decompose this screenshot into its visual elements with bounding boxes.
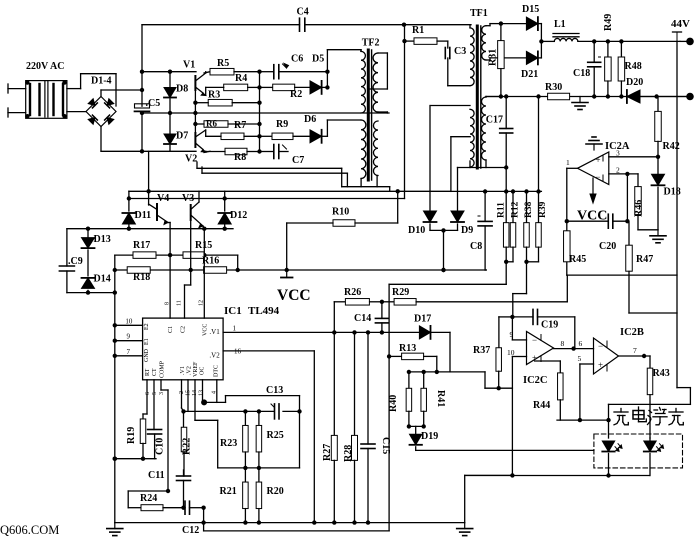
resistor R39 bbox=[536, 97, 548, 262]
wire bbox=[127, 25, 414, 201]
svg-text:D15: D15 bbox=[522, 4, 539, 15]
C7 label bbox=[292, 155, 304, 166]
wire R29 line bbox=[416, 275, 567, 302]
svg-text:9: 9 bbox=[510, 330, 514, 339]
wire pin14 bbox=[195, 380, 218, 468]
svg-text:D9: D9 bbox=[461, 225, 473, 236]
wire pin3 line bbox=[609, 149, 660, 160]
resistor R15 bbox=[183, 240, 212, 258]
wire bbox=[538, 24, 544, 58]
wire IC2B out bbox=[619, 346, 651, 358]
svg-text:R46: R46 bbox=[634, 200, 645, 217]
svg-text:D12: D12 bbox=[230, 210, 247, 221]
wire pin16 bbox=[223, 351, 314, 522]
svg-text:+: + bbox=[598, 360, 603, 370]
wire bbox=[113, 457, 156, 461]
svg-text:7: 7 bbox=[633, 346, 637, 355]
wire pin3 COMP bbox=[161, 380, 170, 493]
svg-text:C13: C13 bbox=[266, 385, 283, 396]
wire bbox=[279, 151, 288, 153]
svg-text:C14: C14 bbox=[354, 313, 371, 324]
LED float bbox=[644, 438, 664, 476]
op-amp IC1 box TL494 bbox=[143, 318, 224, 380]
svg-text:5: 5 bbox=[152, 392, 158, 395]
diode D5 bbox=[295, 54, 325, 94]
svg-text:C8: C8 bbox=[470, 241, 482, 252]
resistor R22 bbox=[181, 411, 192, 476]
wire left bus bbox=[113, 255, 117, 522]
resistor R11 bbox=[497, 192, 509, 262]
svg-text:TF2: TF2 bbox=[362, 38, 380, 49]
svg-text:220V AC: 220V AC bbox=[26, 61, 64, 72]
wire bbox=[204, 508, 390, 531]
resistor R47 bbox=[626, 222, 653, 313]
svg-text:C12: C12 bbox=[182, 525, 199, 536]
ground flipped bbox=[586, 137, 602, 150]
transistor V3 bbox=[191, 191, 205, 229]
svg-text:D21: D21 bbox=[521, 69, 538, 80]
resistor R41 bbox=[421, 372, 446, 427]
capacitor C5 bbox=[135, 98, 161, 111]
svg-text:GND: GND bbox=[144, 348, 150, 362]
svg-text:IC1: IC1 bbox=[224, 305, 242, 317]
TL494 pin numbers bbox=[125, 300, 241, 396]
resistor R48 bbox=[618, 41, 642, 96]
capacitor C19 bbox=[512, 309, 574, 348]
resistor R38 bbox=[524, 192, 534, 262]
ground bbox=[572, 97, 588, 110]
wire bbox=[486, 96, 501, 99]
svg-text:R45: R45 bbox=[569, 254, 586, 265]
wire mid line bbox=[67, 227, 233, 231]
svg-text:.C9: .C9 bbox=[68, 256, 83, 267]
svg-text:D18: D18 bbox=[664, 187, 681, 198]
wire bbox=[625, 174, 629, 224]
D1-4 label bbox=[91, 76, 112, 87]
resistor R17 bbox=[133, 240, 156, 258]
wire bbox=[431, 105, 470, 107]
transistor V2 bbox=[195, 130, 205, 152]
svg-text:R18: R18 bbox=[133, 272, 150, 283]
resistor R18 bbox=[127, 267, 150, 283]
wire pin15 bbox=[187, 380, 189, 412]
diode D9 bbox=[451, 168, 473, 237]
svg-text:R2: R2 bbox=[290, 89, 302, 100]
wire bbox=[325, 50, 361, 90]
svg-text:R22: R22 bbox=[182, 438, 193, 455]
wire bbox=[437, 41, 448, 48]
wire bbox=[504, 260, 513, 285]
wire bbox=[206, 85, 273, 89]
wire emitter rail 2 bbox=[202, 167, 390, 191]
wire bbox=[407, 424, 426, 428]
svg-text:D8: D8 bbox=[176, 84, 188, 95]
wire bbox=[185, 220, 191, 318]
resistor R45 bbox=[564, 221, 587, 275]
svg-text:R10: R10 bbox=[332, 207, 349, 218]
diode D10 bbox=[408, 106, 437, 237]
diode D18 bbox=[652, 157, 681, 230]
svg-text:C10: C10 bbox=[155, 438, 166, 455]
svg-text:R29: R29 bbox=[392, 287, 409, 298]
resistor R9 bbox=[272, 119, 293, 140]
svg-text:R39: R39 bbox=[538, 201, 548, 218]
svg-text:Q606.COM: Q606.COM bbox=[0, 523, 59, 537]
svg-text:C2: C2 bbox=[181, 326, 187, 333]
svg-text:RT: RT bbox=[145, 368, 151, 376]
wire pin2 line bbox=[609, 166, 638, 177]
diode D17 bbox=[414, 314, 431, 339]
svg-text:C6: C6 bbox=[291, 54, 303, 65]
wire emitter rail 1 bbox=[197, 162, 342, 187]
wire bbox=[448, 58, 470, 86]
220V AC label bbox=[26, 61, 64, 72]
svg-text:C11: C11 bbox=[148, 470, 165, 481]
wire bbox=[287, 191, 398, 270]
op-amp IC2A bbox=[578, 152, 609, 185]
wire bbox=[67, 111, 86, 113]
wire bbox=[370, 300, 395, 304]
capacitor C11 bbox=[148, 470, 191, 508]
capacitor C8 bbox=[470, 192, 492, 271]
resistor R3 bbox=[208, 90, 232, 106]
wire bbox=[259, 72, 261, 103]
wire bbox=[101, 88, 144, 97]
svg-text:OC: OC bbox=[200, 367, 206, 375]
ground bbox=[107, 523, 123, 536]
ground bbox=[457, 523, 473, 536]
resistor R19 bbox=[126, 380, 147, 459]
wire mid divider line bbox=[218, 466, 300, 470]
svg-text:.V2: .V2 bbox=[187, 366, 193, 375]
svg-text:10: 10 bbox=[125, 317, 132, 325]
wire bbox=[486, 58, 526, 60]
transformer TF1 secondary lower bbox=[482, 97, 487, 160]
wire bbox=[557, 404, 611, 438]
wire aux line bbox=[451, 189, 542, 193]
V1 label bbox=[183, 60, 195, 71]
Q606.COM watermark bbox=[0, 523, 59, 537]
capacitor C10 bbox=[148, 380, 166, 459]
pin 10 label bbox=[507, 348, 515, 357]
wire top bus bbox=[142, 23, 471, 27]
svg-text:R19: R19 bbox=[126, 427, 137, 444]
diode D20 bbox=[626, 77, 643, 103]
svg-text:D6: D6 bbox=[304, 114, 316, 125]
wire bbox=[451, 137, 486, 192]
wire top line V3V4 bbox=[129, 151, 451, 193]
transformer TF2 secondary lower bbox=[373, 121, 378, 176]
wire bbox=[195, 101, 261, 105]
diode D11 bbox=[122, 191, 151, 229]
svg-text:C19: C19 bbox=[541, 320, 558, 331]
wire IC2C out bbox=[554, 339, 594, 351]
V3 label bbox=[182, 193, 194, 204]
wire bbox=[206, 149, 274, 153]
svg-text:C17: C17 bbox=[486, 115, 503, 126]
IC1 TL494 label bbox=[224, 305, 280, 317]
wire bbox=[431, 332, 451, 372]
resistor R1 bbox=[412, 25, 437, 44]
wire bbox=[299, 411, 301, 468]
wire bottom bus bbox=[115, 520, 465, 524]
diode D6 bbox=[293, 114, 322, 143]
wire bottom rail bbox=[101, 149, 210, 153]
transformer TF2 core bbox=[368, 50, 371, 180]
wire mid rail bbox=[140, 111, 389, 115]
svg-text:1: 1 bbox=[233, 325, 237, 333]
wire bbox=[578, 354, 594, 422]
svg-text:E1: E1 bbox=[144, 338, 150, 345]
TF1 label bbox=[470, 8, 488, 19]
wire bbox=[115, 253, 238, 270]
wire bbox=[163, 506, 186, 510]
svg-text:D19: D19 bbox=[421, 431, 438, 442]
VCC label right bbox=[577, 209, 607, 224]
wire bbox=[465, 357, 515, 523]
diode D15 bbox=[522, 4, 539, 30]
diode D19 bbox=[410, 426, 439, 450]
wire pin7 bbox=[115, 355, 143, 357]
svg-text:R47: R47 bbox=[636, 254, 653, 265]
svg-text:R40: R40 bbox=[388, 395, 399, 412]
wire bbox=[67, 74, 116, 106]
44V label bbox=[671, 18, 690, 41]
svg-text:R12: R12 bbox=[511, 201, 521, 218]
svg-text:44V: 44V bbox=[671, 18, 690, 30]
wire pin13 OC bbox=[201, 380, 207, 406]
svg-text:R5: R5 bbox=[217, 58, 229, 69]
transformer TF2 primary lower bbox=[361, 120, 366, 179]
svg-text:R26: R26 bbox=[344, 287, 361, 298]
wire row V1 collector bbox=[142, 70, 210, 74]
svg-text:.C5: .C5 bbox=[146, 98, 161, 109]
wire pin1 line bbox=[223, 330, 419, 334]
wire bbox=[416, 449, 594, 451]
wire bbox=[279, 70, 330, 74]
transformer T input 220V bbox=[25, 80, 67, 118]
svg-text:D13: D13 bbox=[94, 234, 111, 245]
wire bbox=[567, 41, 677, 387]
diode D14 bbox=[82, 274, 111, 293]
resistor R5 bbox=[210, 58, 234, 75]
svg-text:R8: R8 bbox=[234, 152, 246, 163]
transformer TF1 primary lower bbox=[470, 109, 474, 167]
LED charging bbox=[602, 441, 622, 476]
transformer TF1 secondary upper bbox=[482, 26, 486, 60]
TL494 pin labels bbox=[144, 323, 220, 378]
resistor R20 bbox=[256, 468, 284, 522]
svg-text:11: 11 bbox=[177, 300, 183, 306]
charge mode label 充电 浮充 bbox=[614, 407, 683, 425]
svg-text:VCC: VCC bbox=[203, 324, 209, 336]
resistor R28 bbox=[343, 332, 358, 522]
wire bbox=[513, 260, 539, 317]
svg-text:R1: R1 bbox=[412, 25, 424, 36]
capacitor C4 bbox=[297, 7, 309, 32]
svg-text:1: 1 bbox=[566, 158, 570, 167]
svg-text:R3: R3 bbox=[208, 90, 220, 101]
svg-text:R43: R43 bbox=[653, 368, 670, 379]
svg-text:R21: R21 bbox=[220, 486, 237, 497]
terminal 44V- bbox=[640, 93, 694, 101]
transistor V4 bbox=[149, 191, 168, 224]
resistor R29 bbox=[392, 287, 416, 305]
inductor L1 bbox=[553, 19, 579, 41]
diode D12 bbox=[218, 191, 247, 229]
capacitor C6 bbox=[274, 64, 289, 79]
svg-text:R15: R15 bbox=[195, 240, 212, 251]
capacitor C3 bbox=[445, 46, 466, 59]
wire bbox=[322, 120, 361, 136]
capacitor C20 bbox=[567, 214, 628, 252]
svg-text:VREF: VREF bbox=[193, 361, 199, 377]
wire bbox=[234, 70, 274, 74]
svg-text:R41: R41 bbox=[435, 390, 446, 407]
svg-text:R9: R9 bbox=[276, 119, 288, 130]
wire VCC rail bbox=[115, 268, 486, 273]
resistor R12 bbox=[510, 192, 520, 262]
transistor V1 bbox=[195, 72, 205, 96]
resistor R31 bbox=[488, 24, 505, 97]
svg-text:R4: R4 bbox=[235, 73, 247, 84]
wire bbox=[458, 165, 509, 169]
diode D21 bbox=[521, 51, 538, 80]
wire bbox=[195, 122, 261, 126]
capacitor C7 bbox=[274, 145, 287, 159]
IC2A label bbox=[605, 141, 630, 152]
capacitor C14 bbox=[354, 302, 388, 333]
svg-text:5: 5 bbox=[578, 354, 582, 363]
resistor R23 bbox=[220, 411, 248, 468]
wire bbox=[206, 134, 272, 138]
C6 label bbox=[291, 54, 303, 65]
svg-text:12: 12 bbox=[199, 300, 205, 306]
transformer TF1 primary upper bbox=[470, 25, 474, 86]
svg-text:DTC: DTC bbox=[214, 365, 220, 377]
resistor R49 bbox=[603, 14, 614, 97]
VCC label main bbox=[277, 287, 311, 304]
svg-text:D7: D7 bbox=[176, 131, 188, 142]
wire bbox=[100, 127, 102, 152]
VCC symbol bbox=[281, 270, 293, 278]
svg-text:C1: C1 bbox=[168, 326, 174, 333]
capacitor C12 bbox=[182, 501, 206, 536]
svg-text:R48: R48 bbox=[625, 61, 642, 72]
svg-text:TL494: TL494 bbox=[248, 305, 280, 317]
wire bbox=[499, 317, 513, 349]
svg-text:R23: R23 bbox=[220, 438, 237, 449]
pin 1 label bbox=[566, 158, 570, 167]
wire bbox=[128, 491, 168, 508]
svg-text:R30: R30 bbox=[545, 82, 562, 93]
IC2C label bbox=[523, 375, 548, 386]
ground bbox=[650, 230, 666, 243]
LED indicator dashed box bbox=[594, 434, 683, 468]
svg-text:D1-4: D1-4 bbox=[91, 76, 112, 87]
svg-text:R27: R27 bbox=[322, 444, 333, 461]
diode D13 bbox=[82, 229, 111, 276]
svg-text:R7: R7 bbox=[234, 120, 246, 131]
svg-text:V2: V2 bbox=[185, 154, 197, 165]
op-amp IC2B bbox=[594, 338, 619, 374]
svg-text:V1: V1 bbox=[183, 60, 195, 71]
resistor R42 bbox=[655, 97, 680, 157]
svg-text:R11: R11 bbox=[497, 202, 507, 218]
svg-text:C7: C7 bbox=[292, 155, 304, 166]
IC2B label bbox=[620, 327, 644, 338]
wire bbox=[430, 228, 458, 272]
terminal 44V+ bbox=[680, 38, 694, 46]
VCC arrow symbol bbox=[590, 178, 596, 203]
svg-text:R25: R25 bbox=[267, 430, 284, 441]
svg-text:D5: D5 bbox=[312, 54, 324, 65]
svg-text:CT: CT bbox=[152, 368, 158, 376]
wire output line bbox=[486, 94, 687, 98]
wire bbox=[609, 313, 691, 404]
wire bbox=[389, 284, 506, 531]
AC input terminals bbox=[8, 84, 26, 117]
wire bbox=[512, 356, 526, 358]
svg-text:R31: R31 bbox=[488, 49, 499, 66]
svg-text:R37: R37 bbox=[473, 345, 490, 356]
wire bbox=[259, 103, 261, 152]
wire bbox=[327, 50, 361, 52]
resistor R6 bbox=[204, 119, 228, 129]
svg-text:.V1: .V1 bbox=[209, 328, 220, 336]
capacitor C17 bbox=[486, 97, 513, 168]
svg-text:+: + bbox=[595, 155, 600, 165]
svg-text:R17: R17 bbox=[133, 240, 150, 251]
svg-text:D17: D17 bbox=[414, 314, 431, 325]
wire bbox=[510, 315, 527, 340]
svg-text:E2: E2 bbox=[144, 323, 150, 330]
svg-text:3: 3 bbox=[159, 392, 165, 395]
svg-text:R49: R49 bbox=[603, 14, 614, 31]
wire pin2 bbox=[182, 380, 184, 412]
svg-text:IC2C: IC2C bbox=[523, 375, 548, 386]
capacitor C9 bbox=[59, 229, 82, 293]
resistor R21 bbox=[220, 468, 249, 522]
wire main + bus bbox=[140, 25, 144, 151]
wire bbox=[486, 21, 526, 25]
wire bbox=[465, 473, 650, 477]
svg-text:R24: R24 bbox=[140, 493, 157, 504]
resistor R37 bbox=[473, 345, 501, 387]
wire bbox=[322, 53, 388, 89]
svg-text:R44: R44 bbox=[533, 400, 550, 411]
wire pin9 bbox=[115, 340, 143, 342]
svg-text:.V2: .V2 bbox=[209, 352, 220, 360]
resistor R44 bbox=[533, 361, 563, 420]
svg-text:V4: V4 bbox=[157, 193, 169, 204]
diode D7 bbox=[164, 113, 188, 151]
svg-text:COMP: COMP bbox=[160, 360, 166, 378]
svg-text:9: 9 bbox=[127, 333, 131, 341]
svg-text:C3: C3 bbox=[454, 46, 466, 57]
svg-text:C15: C15 bbox=[380, 437, 391, 454]
resistor R30 bbox=[545, 82, 570, 100]
svg-text:C20: C20 bbox=[599, 241, 616, 252]
wire bbox=[505, 168, 507, 192]
resistor R25 bbox=[256, 411, 284, 468]
V2 label bbox=[185, 154, 197, 165]
wire bbox=[168, 223, 170, 319]
diode D8 bbox=[164, 72, 188, 113]
wire bbox=[407, 370, 485, 389]
svg-text:2: 2 bbox=[616, 166, 620, 175]
wire bbox=[378, 112, 387, 113]
